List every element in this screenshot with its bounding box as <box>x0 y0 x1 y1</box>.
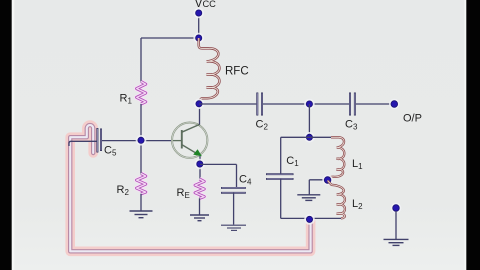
node tank top <box>304 132 315 143</box>
ground tap <box>297 195 320 201</box>
wire collector to C2 <box>199 103 256 105</box>
wire C3 to output <box>356 103 394 105</box>
node O/P terminal <box>389 99 400 110</box>
feedback highlight annotation <box>70 125 310 251</box>
inductor L1 <box>328 137 344 180</box>
wire tap to ground stub <box>309 179 327 181</box>
node reference terminal <box>391 203 402 214</box>
transistor Q1 <box>172 123 207 158</box>
resistor R2 <box>137 174 146 194</box>
wire reference terminal to ground <box>395 211 397 240</box>
inductor RFC <box>199 38 220 104</box>
wire tank left upper <box>280 137 282 174</box>
wire collector <box>199 104 201 125</box>
wire R1 bottom through base node to R2 <box>140 104 142 174</box>
capacitor C1 <box>266 174 294 179</box>
inductor L2 <box>328 181 345 219</box>
wire feedback path C5 to tank bottom <box>69 141 310 251</box>
ground reference terminal <box>384 239 409 245</box>
capacitor C3 <box>350 93 355 116</box>
wire emitter to C4 <box>200 163 237 165</box>
wire C5 left lead over annotation <box>69 141 97 146</box>
ground R2 <box>130 211 153 218</box>
wire RE to ground <box>199 198 201 215</box>
wire tank top <box>281 136 332 138</box>
node tap <box>322 175 333 186</box>
node tank bottom <box>304 214 315 225</box>
node base <box>136 135 147 146</box>
svg-text:O/P: O/P <box>403 113 422 125</box>
resistor R1 <box>137 82 146 105</box>
wire junction down to tank <box>308 104 310 137</box>
wire VCC node to top junction <box>198 14 200 37</box>
svg-text:RFC: RFC <box>225 66 249 78</box>
wire tank left lower <box>280 179 282 219</box>
wire top horizontal <box>141 37 199 39</box>
ground RE <box>190 215 209 221</box>
wire R2 to ground <box>140 194 142 211</box>
capacitor C2 <box>257 93 262 116</box>
capacitor C5 <box>97 128 101 153</box>
wire base <box>101 140 173 142</box>
capacitor C4 <box>221 188 246 193</box>
node C2 C3 junction <box>304 99 315 110</box>
wire R1 top lead <box>140 38 142 82</box>
wire emitter <box>199 156 201 179</box>
node collector junction <box>194 99 205 110</box>
wire C4 to ground <box>233 193 235 225</box>
wire tank bottom <box>281 217 342 219</box>
resistor RE <box>195 179 204 198</box>
node emitter <box>195 159 206 170</box>
node VCC <box>193 8 204 19</box>
wire C2 to C3 <box>263 103 349 105</box>
node VCC junction <box>193 33 204 44</box>
ground C4 <box>221 225 246 230</box>
